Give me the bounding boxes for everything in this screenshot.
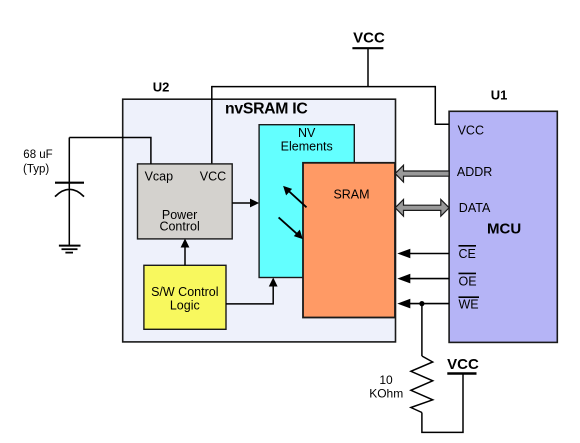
- svg-text:U2: U2: [153, 80, 170, 95]
- pin OE wire and arrow: [397, 274, 449, 284]
- label 10 KOhm: [369, 373, 403, 401]
- SRAM block: [303, 163, 395, 318]
- svg-text:OE: OE: [459, 275, 477, 289]
- svg-text:NV: NV: [298, 126, 316, 140]
- svg-text:SRAM: SRAM: [333, 188, 369, 202]
- pin VCC label (MCU): [458, 124, 484, 138]
- bus arrow ADDR (MCU to SRAM): [395, 165, 449, 182]
- ground: [59, 246, 81, 253]
- svg-text:10: 10: [379, 373, 393, 387]
- label ADDR: [457, 165, 492, 179]
- label OE (active low): [459, 273, 477, 288]
- svg-text:VCC: VCC: [353, 30, 385, 47]
- arrow NV Elements to SRAM (diagonal): [279, 217, 303, 239]
- svg-text:nvSRAM IC: nvSRAM IC: [225, 100, 307, 117]
- svg-text:CE: CE: [459, 247, 476, 261]
- wire VCC to Power Control VCC pin: [211, 86, 213, 165]
- wire resistor to VCC rail: [422, 374, 463, 432]
- MCU block U1: [449, 111, 557, 342]
- svg-text:(Typ): (Typ): [23, 164, 49, 176]
- label MCU: [487, 221, 521, 238]
- svg-text:WE: WE: [459, 298, 479, 312]
- S/W Control Logic block: [144, 265, 226, 329]
- pin WE wire and arrow: [397, 299, 449, 309]
- svg-text:DATA: DATA: [459, 201, 491, 215]
- junction on WE line: [419, 301, 424, 306]
- label nvSRAM IC: [225, 100, 307, 117]
- power supply VCC (bottom): [447, 356, 479, 374]
- svg-text:VCC: VCC: [447, 356, 479, 373]
- power supply VCC (top): [352, 30, 385, 49]
- svg-text:ADDR: ADDR: [457, 165, 492, 179]
- svg-text:KOhm: KOhm: [369, 387, 403, 401]
- svg-text:S/W Control: S/W Control: [151, 285, 218, 299]
- label CE (active low): [459, 246, 477, 261]
- svg-text:Elements: Elements: [281, 140, 333, 154]
- svg-text:Logic: Logic: [170, 298, 200, 312]
- pin CE wire and arrow: [397, 249, 449, 259]
- arrow S/W Control Logic to Power Control: [181, 239, 190, 266]
- Power Control block: [138, 164, 233, 239]
- arrow S/W Control Logic to NV Elements: [226, 278, 278, 304]
- label WE (active low): [459, 297, 480, 311]
- svg-text:VCC: VCC: [458, 124, 484, 138]
- svg-text:Vcap: Vcap: [145, 169, 174, 183]
- nvSRAM IC outer block U2: [123, 99, 396, 342]
- svg-text:Control: Control: [159, 220, 199, 234]
- label U2: [153, 80, 170, 95]
- svg-text:VCC: VCC: [200, 169, 226, 183]
- wire capacitor to Vcap pin: [69, 138, 151, 165]
- arrow Power Control to NV Elements: [232, 199, 259, 208]
- svg-text:U1: U1: [491, 88, 508, 103]
- label U1: [491, 88, 508, 103]
- svg-text:68 uF: 68 uF: [23, 149, 52, 161]
- arrow SRAM to NV Elements (diagonal): [283, 186, 306, 207]
- capacitor C1 68uF: [23, 138, 84, 246]
- wire VCC horizontal bus: [212, 86, 435, 88]
- wire VCC stem: [367, 49, 369, 87]
- label DATA: [459, 201, 491, 215]
- resistor R1 10 KOhm: [411, 356, 433, 413]
- NV Elements block: [259, 125, 354, 278]
- bus arrow DATA (bidirectional): [395, 199, 449, 216]
- wire VCC to MCU VCC pin: [435, 86, 449, 124]
- wire WE junction to resistor: [421, 304, 423, 356]
- svg-text:MCU: MCU: [487, 221, 521, 238]
